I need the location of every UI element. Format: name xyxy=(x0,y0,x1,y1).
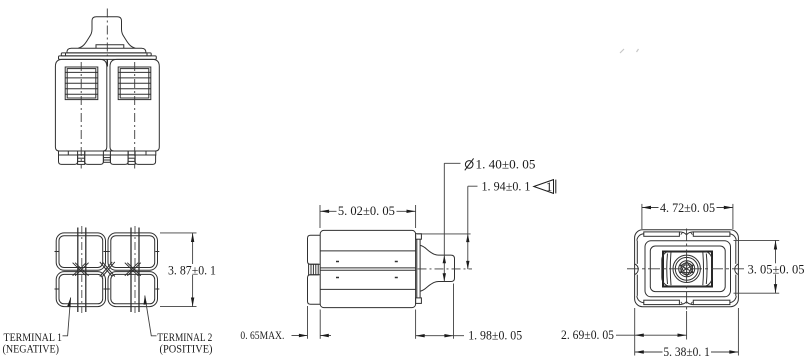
svg-text:3. 05±0. 05: 3. 05±0. 05 xyxy=(748,263,805,277)
svg-text:4. 72±0. 05: 4. 72±0. 05 xyxy=(660,201,715,215)
revision triangle 1 xyxy=(534,180,556,195)
dim 2.69 line xyxy=(616,334,687,336)
dim 0.65 tail right xyxy=(320,335,331,337)
dim 4.72 extension lines xyxy=(641,204,643,229)
side view shaft centerline xyxy=(418,268,473,270)
dia 1.40 leader xyxy=(444,163,460,281)
svg-text:5. 38±0. 1: 5. 38±0. 1 xyxy=(663,345,710,359)
dim 1.40 arrows xyxy=(443,255,446,263)
dim text 3.05 xyxy=(747,263,807,277)
front view body tangent line xyxy=(106,59,108,66)
end view shaft star xyxy=(680,261,694,277)
bottom view pad bottom-left xyxy=(56,272,105,307)
dim 5.38 arrows xyxy=(635,350,644,353)
front view center connector xyxy=(103,155,110,162)
dim 1.94 arrows xyxy=(466,234,469,242)
side view body xyxy=(320,230,415,307)
svg-text:1. 94±0. 1: 1. 94±0. 1 xyxy=(482,180,531,194)
dim 1.98 line xyxy=(416,335,464,337)
front view centerline top xyxy=(106,9,108,60)
dim 0.65 extension lines xyxy=(307,306,309,339)
dim 5.38 extension lines xyxy=(634,308,636,356)
dim 2.69 center extension xyxy=(686,311,688,340)
dim 1.98 arrows xyxy=(416,334,425,337)
svg-text:1. 98±0. 05: 1. 98±0. 05 xyxy=(468,328,522,342)
arrowheads xyxy=(67,206,777,354)
dim text 5.02 xyxy=(337,204,397,218)
dim 3.87 extension lines xyxy=(160,232,197,234)
faint watermark marks xyxy=(620,49,639,53)
dim text 3.87 xyxy=(167,263,218,277)
svg-text:5. 02±0. 05: 5. 02±0. 05 xyxy=(338,204,395,218)
bottom view weld cross left xyxy=(73,263,89,276)
svg-text:3. 87±0. 1: 3. 87±0. 1 xyxy=(168,263,216,277)
side view bearing flange tab upper xyxy=(416,234,422,240)
end view top slots xyxy=(644,232,680,236)
front view centerline right motor xyxy=(134,62,136,169)
end view barrel xyxy=(662,251,712,286)
side view foot middle block xyxy=(309,264,319,275)
side view body chamfer line lower xyxy=(320,288,415,290)
dim 5.38 line xyxy=(635,351,739,353)
dim 5.02 line xyxy=(320,210,416,212)
front view flange lower tier xyxy=(59,56,157,60)
end view case inner xyxy=(650,246,725,292)
bottom view centerline right xyxy=(134,226,136,313)
dim text 5.38 xyxy=(663,345,712,359)
front view terminal ladder right xyxy=(128,151,135,164)
svg-text:2. 69±0. 05: 2. 69±0. 05 xyxy=(561,328,614,342)
front view cap boss xyxy=(96,45,124,49)
dim text 4.72 xyxy=(659,201,717,215)
front view foot 2 xyxy=(85,155,104,164)
svg-text:TERMINAL 1: TERMINAL 1 xyxy=(4,332,62,344)
terminal 1 leader xyxy=(63,298,71,336)
bottom view terminal strip lines left xyxy=(77,228,79,313)
svg-text:0. 65MAX.: 0. 65MAX. xyxy=(240,330,284,342)
svg-text:1: 1 xyxy=(546,180,552,194)
front view foot 3 xyxy=(110,155,128,164)
bottom view weld cross right xyxy=(125,263,141,276)
end view case xyxy=(645,241,731,297)
svg-text:(POSITIVE): (POSITIVE) xyxy=(160,343,213,355)
front view right vent xyxy=(118,67,151,100)
front view shaft nub xyxy=(78,17,135,48)
dim 5.02 arrows xyxy=(320,210,329,213)
front view centerline left motor xyxy=(80,62,82,169)
front view foot 1 xyxy=(59,155,78,164)
side view bearing flange xyxy=(417,239,420,298)
svg-text:1. 40±0. 05: 1. 40±0. 05 xyxy=(476,158,536,172)
dim 3.05 extension lines xyxy=(734,239,780,241)
end view bearing circles xyxy=(673,255,700,282)
dim 3.05 arrows xyxy=(774,240,777,249)
front view cap xyxy=(67,48,146,53)
terminal 2 leader xyxy=(145,296,157,336)
dim 0.65 arrows xyxy=(299,334,308,337)
dim 0.65 leader left xyxy=(292,335,308,337)
front view flange xyxy=(61,53,151,56)
bottom view pad top-left xyxy=(56,233,105,270)
bottom view weld cross center xyxy=(100,262,115,277)
side view punch marks xyxy=(336,262,398,278)
side view body chamfer line upper xyxy=(320,250,415,252)
dim 2.69 arrows xyxy=(635,334,644,337)
front view right body xyxy=(110,59,159,151)
front view flange tick right xyxy=(146,53,148,56)
svg-text:TERMINAL 2: TERMINAL 2 xyxy=(157,332,212,344)
end view bottom center notch xyxy=(679,302,693,305)
dim 1.94 leader xyxy=(468,186,478,269)
side view foot tab upper xyxy=(308,235,321,264)
end view top center notch xyxy=(679,232,693,235)
dim 5.02 extension lines xyxy=(319,205,321,228)
front view terminal ladder left xyxy=(78,151,85,164)
end view outer outline xyxy=(635,230,739,307)
front view foot 4 xyxy=(135,155,156,164)
bottom view terminal strip lines right xyxy=(130,228,132,313)
front view base band xyxy=(59,151,156,155)
terminal 1 arrow xyxy=(67,297,71,307)
dim 1.98 extension lines xyxy=(415,310,417,339)
front view left body xyxy=(55,59,106,151)
side view foot tab lower xyxy=(308,275,321,305)
side view bearing flange tab lower xyxy=(416,298,422,304)
svg-text:(NEGATIVE): (NEGATIVE) xyxy=(3,343,60,355)
end view vertical centerline xyxy=(686,229,688,312)
dim 1.94 top extension xyxy=(417,233,471,235)
end view bottom slots xyxy=(644,300,680,304)
bottom view centerline left xyxy=(81,226,83,313)
end view horizontal centerline xyxy=(627,268,746,270)
dia symbol 1.40 xyxy=(465,158,474,170)
side view shaft boss xyxy=(420,245,454,291)
terminal 2 arrow xyxy=(144,296,147,305)
end view barrel strips xyxy=(667,252,707,285)
bottom view pad bottom-right xyxy=(108,272,158,307)
dim 3.87 line xyxy=(192,233,194,307)
front view flange tick left xyxy=(65,53,67,56)
dim 3.87 arrows xyxy=(191,233,194,242)
end view hump fan ticks xyxy=(681,232,693,304)
dim 4.72 arrows xyxy=(642,206,651,209)
bottom view pad top-right xyxy=(108,233,158,270)
bottom view edge ticks xyxy=(55,252,160,290)
dim 3.05 line xyxy=(775,240,777,293)
front view left vent xyxy=(65,67,98,100)
end view bracket frame xyxy=(663,252,712,287)
end view corner arcs xyxy=(637,234,644,241)
end view side edge inner lines xyxy=(637,241,736,296)
end view side mid notches xyxy=(635,264,739,275)
dim 4.72 line xyxy=(642,207,733,209)
side view body middle lines xyxy=(320,267,415,269)
